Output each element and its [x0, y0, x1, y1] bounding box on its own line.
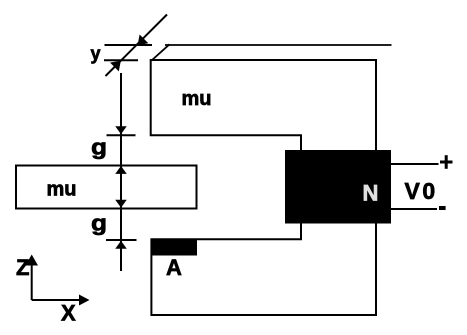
svg-text:N: N [363, 180, 379, 205]
plus terminal [440, 161, 453, 164]
arrowhead on oblique line at top tick [133, 34, 148, 49]
up arrowhead at lower arm tick [115, 241, 127, 249]
arrowhead on oblique line at lower tick [110, 56, 125, 71]
tick (front top edge level) [104, 59, 138, 61]
core back top edge (3D perspective) [165, 44, 392, 46]
tick (lower arm top edge level) [106, 239, 137, 241]
vertical dimension line [120, 73, 122, 271]
bar: movable permeable slab [16, 166, 197, 209]
oblique dimension line for y (45 deg) [106, 15, 168, 77]
tick (back top edge level) [105, 44, 153, 46]
svg-text:g: g [91, 210, 107, 235]
up arrowhead at bar top edge [115, 166, 127, 174]
core corner diagonal (3D perspective) [152, 44, 170, 60]
minus terminal [439, 206, 446, 210]
svg-text:V0: V0 [405, 178, 438, 204]
svg-text:mu: mu [182, 88, 212, 110]
coil N (black winding block) [285, 150, 391, 224]
svg-text:A: A [166, 255, 182, 280]
axis X arrowhead [79, 295, 90, 306]
tick (upper core bottom edge level) [107, 134, 136, 136]
axis X line [32, 299, 80, 301]
wire to - terminal [391, 208, 437, 210]
core C-shaped yoke (front face outline) [151, 60, 376, 315]
axis Z line [31, 262, 33, 300]
wire to + terminal [391, 163, 439, 165]
down arrowhead at upper core bottom tick [115, 126, 127, 134]
svg-text:Z: Z [16, 255, 29, 280]
svg-text:g: g [91, 135, 107, 160]
down arrowhead at bar bottom edge [115, 200, 127, 208]
svg-text:X: X [61, 301, 76, 326]
svg-text:mu: mu [47, 178, 77, 200]
svg-text:y: y [91, 44, 101, 64]
magnet A (black block on lower arm) [151, 239, 197, 255]
axis Z arrowhead [25, 255, 38, 266]
